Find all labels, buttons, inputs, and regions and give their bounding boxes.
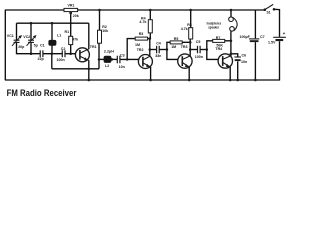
inductor L2 xyxy=(104,56,112,63)
junction dot L2 right xyxy=(111,58,114,61)
wire R6 top lead xyxy=(190,10,192,28)
wire C7 top lead xyxy=(254,10,256,38)
wire switch to battery segment xyxy=(274,9,280,37)
wire TR4 emitter column xyxy=(229,67,231,80)
junction dot L1 top xyxy=(51,22,54,25)
junction dot tank node xyxy=(51,52,54,55)
svg-text:100n: 100n xyxy=(57,58,65,62)
junction dot R3 R4 collector xyxy=(149,37,152,40)
wire R7 right leg xyxy=(225,40,231,42)
wire R4 bottom lead xyxy=(149,33,151,39)
wire C4 left lead xyxy=(150,49,157,51)
junction dot VC2 top xyxy=(30,22,33,25)
wire L1 branch upper xyxy=(51,23,53,40)
transistor TR1 xyxy=(75,48,89,62)
wire R6 collector column xyxy=(189,39,191,56)
wire R3 right leg xyxy=(148,38,150,40)
svg-text:47k: 47k xyxy=(72,37,78,41)
junction dot C5 collector tap xyxy=(189,48,192,51)
junction dot R2 top rail xyxy=(98,9,101,12)
wire TR1 emitter column xyxy=(88,60,90,80)
svg-text:TR4: TR4 xyxy=(215,47,222,51)
svg-text:10n: 10n xyxy=(119,65,125,69)
svg-text:22p: 22p xyxy=(38,57,45,61)
svg-text:R3: R3 xyxy=(139,32,144,36)
svg-text:VC2: VC2 xyxy=(23,35,30,39)
junction dot TR3 emitter ground xyxy=(188,79,191,82)
svg-text:TR3: TR3 xyxy=(181,45,188,49)
battery B1 xyxy=(273,37,286,41)
svg-text:C2: C2 xyxy=(61,47,66,51)
wire lower link line xyxy=(52,68,99,70)
svg-text:10n: 10n xyxy=(241,60,247,64)
svg-text:20k: 20k xyxy=(73,14,79,18)
wire VC2 branch upper xyxy=(30,23,32,40)
junction dot R7 node xyxy=(206,48,209,51)
headphones symbol xyxy=(229,17,237,31)
svg-text:C4: C4 xyxy=(156,42,161,46)
wire C4 right lead xyxy=(159,49,167,51)
variable capacitor VC2 xyxy=(27,35,37,46)
wire top supply rail xyxy=(5,9,265,11)
wire L1 branch lower xyxy=(51,45,53,54)
svg-text:VR1: VR1 xyxy=(68,4,75,8)
wire base line C1 to C2 xyxy=(43,53,62,55)
wire R2 bottom column xyxy=(98,43,100,69)
wire C7 bottom lead xyxy=(254,42,256,80)
wire tank top rail xyxy=(17,22,89,24)
capacitor C2 xyxy=(62,50,65,57)
junction dot TR1 emitter lower line xyxy=(88,68,91,71)
capacitor C7 xyxy=(249,39,259,42)
switch S1 xyxy=(264,4,276,11)
wire TR4 base leg xyxy=(207,50,219,60)
wire TR1 collector column xyxy=(88,23,90,49)
svg-text:1.5V: 1.5V xyxy=(268,41,276,45)
wire L2 to C3 xyxy=(111,58,117,60)
wire TR3 base leg xyxy=(167,50,178,60)
wire R5 right leg xyxy=(182,41,190,43)
resistor R1 xyxy=(69,36,73,44)
wire VC2 branch lower xyxy=(30,43,32,54)
resistor R3 xyxy=(135,37,147,40)
svg-text:TR1: TR1 xyxy=(90,45,97,49)
transistor TR2 xyxy=(138,55,152,69)
wire TR3 emitter column xyxy=(188,67,190,80)
junction dot R3 base leg xyxy=(126,58,129,61)
svg-text:1M: 1M xyxy=(135,43,140,47)
wire TR2 collector column xyxy=(149,39,151,57)
transistor TR3 xyxy=(178,54,192,68)
junction dot R6 top rail xyxy=(189,9,192,12)
svg-text:VC1: VC1 xyxy=(7,34,14,38)
resistor R6 xyxy=(189,28,193,39)
junction dot C6 ground xyxy=(236,79,239,82)
svg-text:C1: C1 xyxy=(40,43,45,47)
svg-text:100n: 100n xyxy=(195,55,203,59)
wire battery to ground xyxy=(279,41,281,80)
svg-text:+: + xyxy=(283,31,286,36)
resistor R5 xyxy=(170,41,182,44)
junction dot R5 node xyxy=(166,48,169,51)
junction dot TR2 emitter ground xyxy=(149,79,152,82)
wire headphones top lead xyxy=(230,10,232,17)
capacitor C6 xyxy=(234,57,241,61)
svg-text:speaker: speaker xyxy=(208,26,219,30)
wire C6 bottom lead xyxy=(237,61,239,80)
wire R5 left leg xyxy=(167,42,170,49)
resistor R7 xyxy=(213,39,225,42)
inductor L1 xyxy=(48,40,56,46)
wire R4 top lead xyxy=(149,10,151,20)
wire base line VC1 to C1 xyxy=(17,53,41,55)
junction dot R5 R6 collector xyxy=(189,41,192,44)
transistor TR4 xyxy=(218,54,232,68)
svg-text:33n: 33n xyxy=(155,54,161,58)
wire interstage line to L2 xyxy=(99,58,104,60)
wire headphones to TR4 collector column xyxy=(230,31,232,56)
svg-text:5p: 5p xyxy=(34,44,39,48)
variable capacitor VC1 xyxy=(12,35,22,46)
wire TR2 emitter column xyxy=(150,67,152,80)
wire VC1 branch lower xyxy=(16,43,18,55)
junction dot R1 bottom xyxy=(69,52,72,55)
wire R7 left leg xyxy=(207,41,213,50)
wire R3 left leg xyxy=(127,39,135,60)
svg-text:100µF: 100µF xyxy=(240,35,251,39)
junction dot C7 ground xyxy=(254,79,257,82)
junction dot R7 collector xyxy=(230,40,233,43)
capacitor C1 xyxy=(40,50,43,57)
svg-text:TR2: TR2 xyxy=(137,48,144,52)
svg-text:R1: R1 xyxy=(65,30,70,34)
resistor R2 xyxy=(98,30,102,43)
svg-text:4.7k: 4.7k xyxy=(181,27,188,31)
junction dot R4 top rail xyxy=(149,9,152,12)
wire C3 to TR2 base xyxy=(120,58,139,60)
junction dot VC2 bottom xyxy=(30,52,33,55)
junction dot TR1 emitter ground xyxy=(88,79,91,82)
capacitor C3 xyxy=(117,56,120,64)
wire C5 right lead xyxy=(200,49,207,51)
svg-text:R5: R5 xyxy=(174,37,179,41)
svg-text:FM Radio Receiver: FM Radio Receiver xyxy=(7,87,77,98)
svg-text:S1: S1 xyxy=(267,11,271,15)
junction dot headphones top rail xyxy=(230,9,233,12)
svg-text:C5: C5 xyxy=(196,40,201,44)
potentiometer VR1 xyxy=(64,8,78,14)
svg-text:C7: C7 xyxy=(260,35,265,39)
wire left frame edge xyxy=(4,10,6,80)
resistor R4 xyxy=(148,20,152,33)
svg-text:10k: 10k xyxy=(102,29,108,33)
svg-text:1M: 1M xyxy=(171,45,176,49)
wire bottom ground rail xyxy=(5,79,280,81)
svg-text:R7: R7 xyxy=(216,36,221,40)
wire base line C2 to TR1 xyxy=(65,53,76,55)
svg-text:2.2µH: 2.2µH xyxy=(104,50,114,54)
junction dot R2 interstage xyxy=(98,58,101,61)
svg-text:C3: C3 xyxy=(120,53,125,57)
capacitor C5 xyxy=(198,46,201,54)
wire VC1 branch upper xyxy=(16,23,18,40)
capacitor C4 xyxy=(157,46,160,54)
wire tank node down branch xyxy=(51,54,53,69)
svg-text:20p: 20p xyxy=(18,45,25,49)
junction dot TR4 emitter ground xyxy=(229,79,232,82)
wire C6 branch xyxy=(231,54,238,57)
wire VR1 wiper and R1 column xyxy=(70,12,72,36)
svg-text:C6: C6 xyxy=(242,53,247,57)
junction dot C6 tap xyxy=(230,53,233,56)
svg-text:L2: L2 xyxy=(105,64,109,68)
svg-text:L1: L1 xyxy=(57,34,61,38)
junction dot C4 collector tap xyxy=(149,48,152,51)
wire R1 bottom lead xyxy=(70,44,72,53)
wire C5 left lead xyxy=(190,49,197,51)
svg-text:4.7k: 4.7k xyxy=(139,20,146,24)
svg-text:R6: R6 xyxy=(187,23,192,27)
wire R2 top lead xyxy=(99,10,101,30)
